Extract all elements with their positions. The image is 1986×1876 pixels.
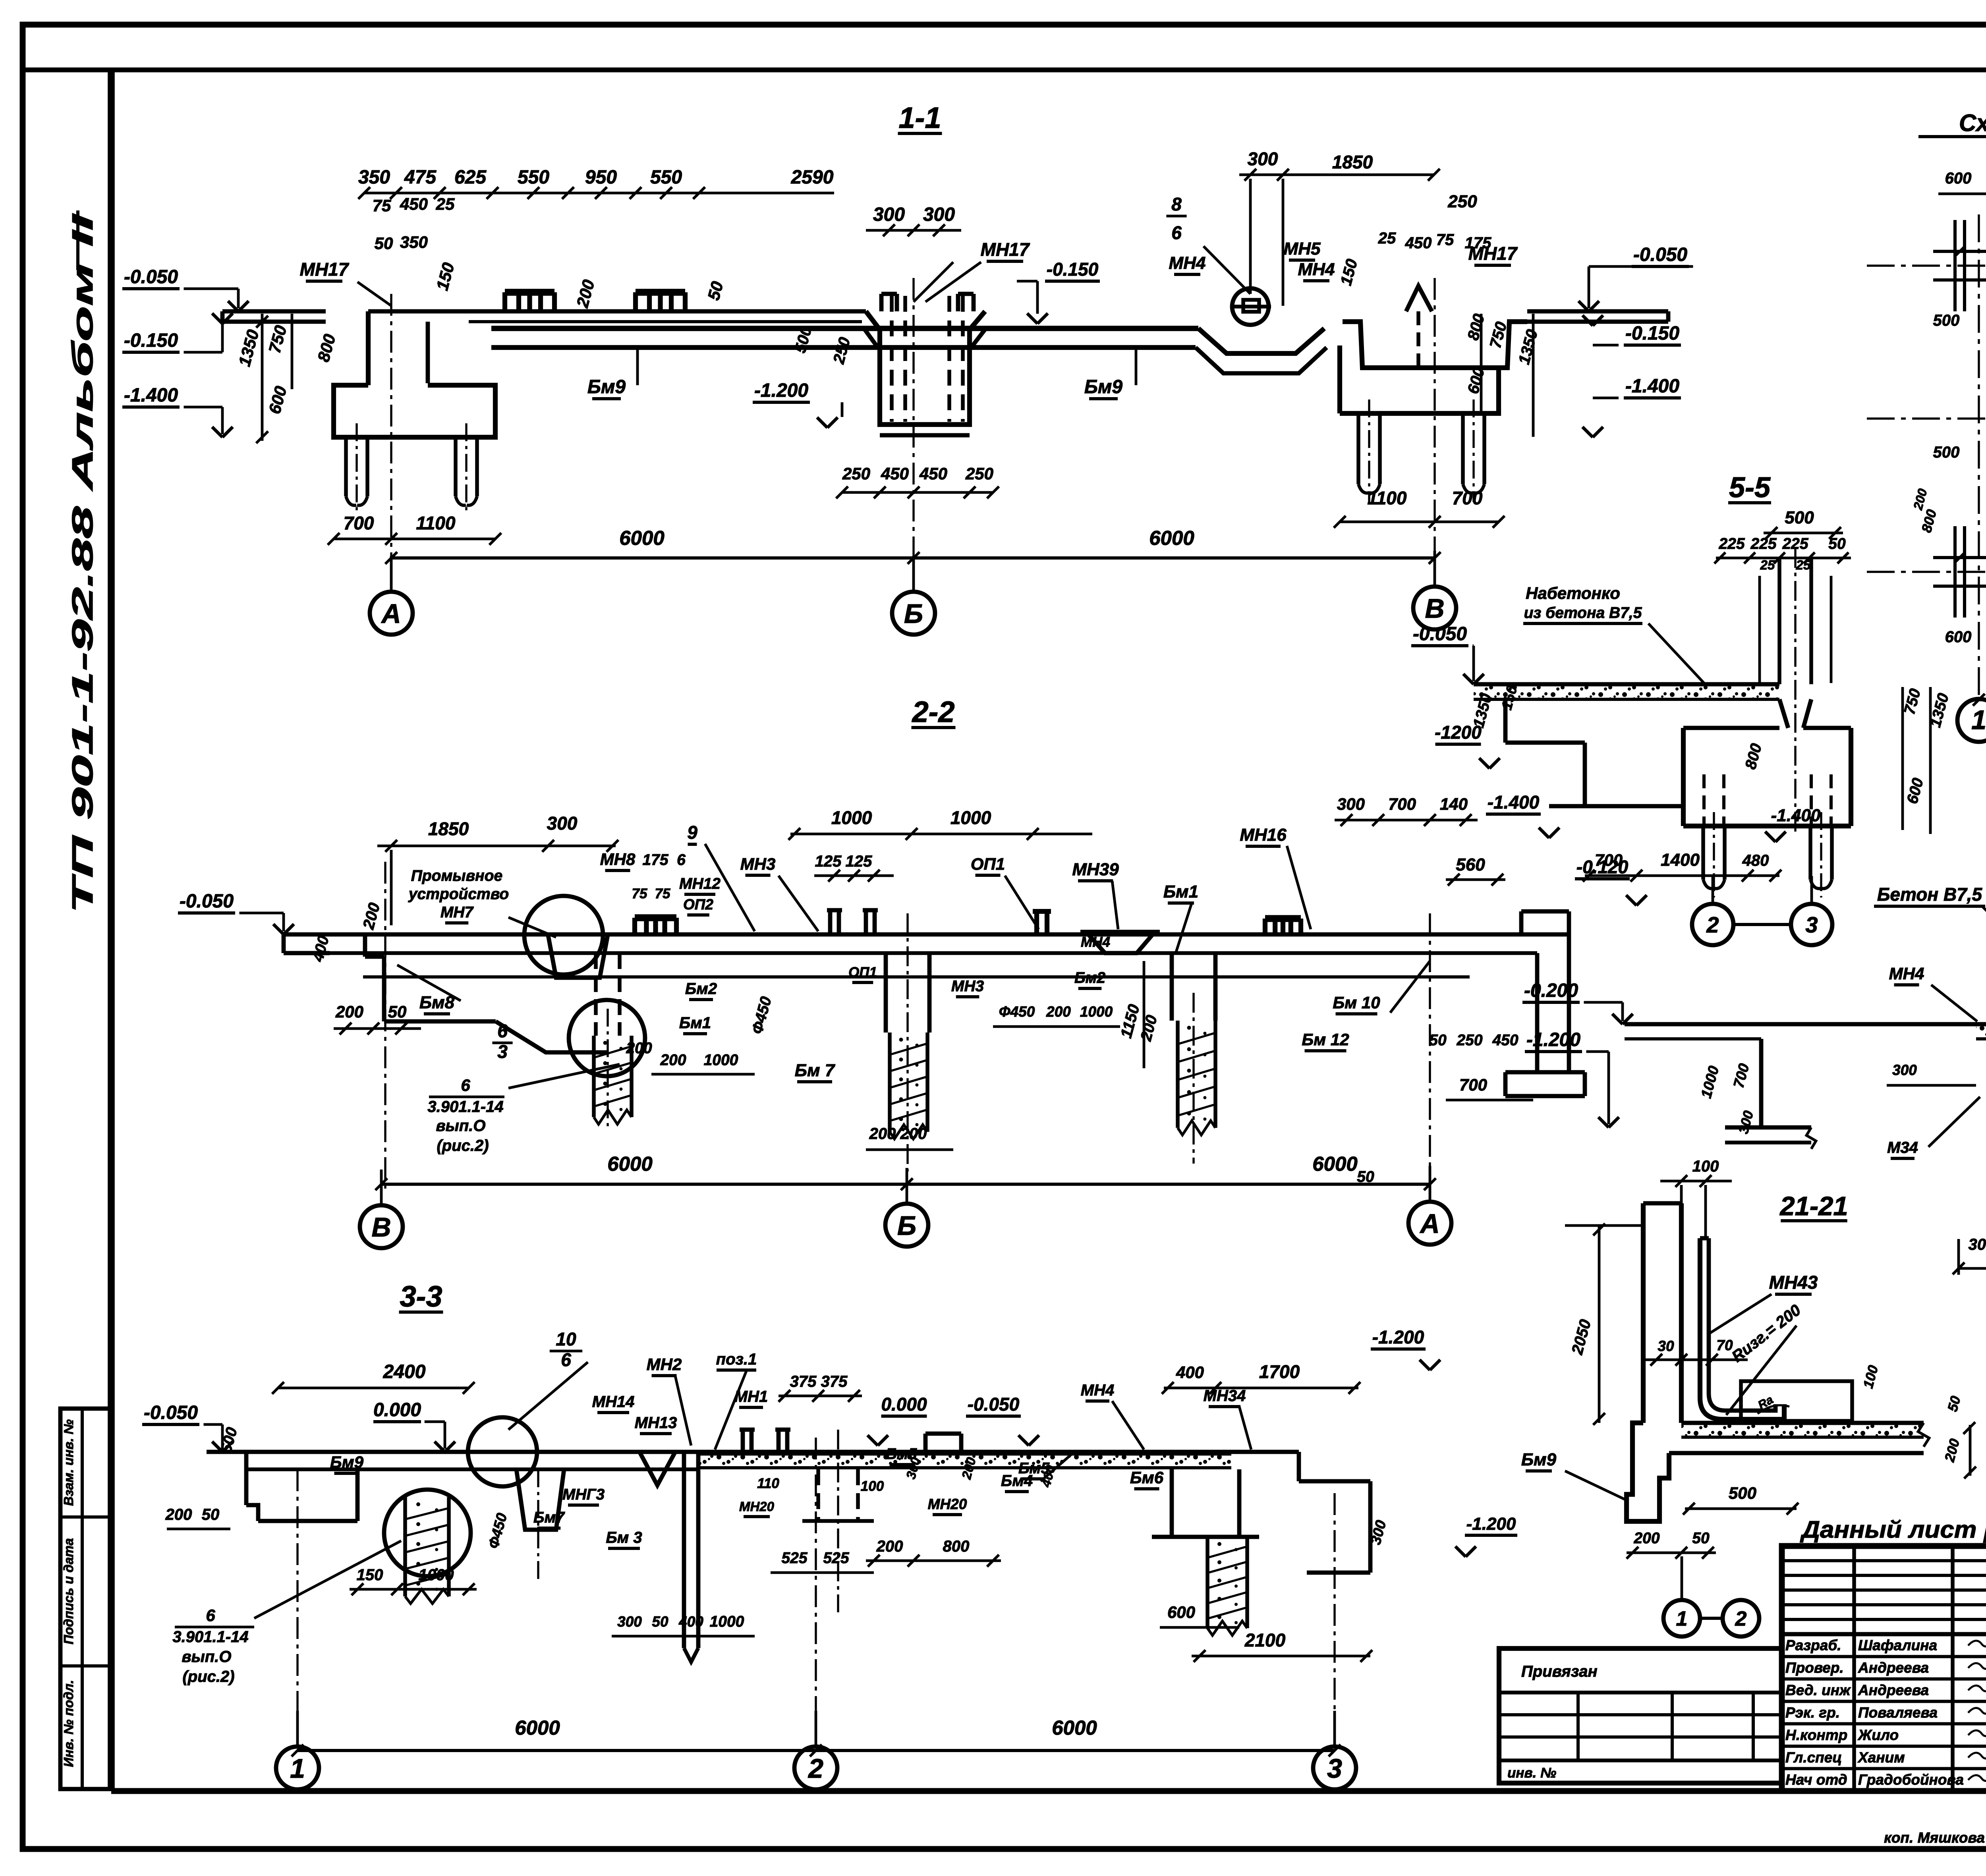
svg-text:250: 250 bbox=[842, 464, 870, 483]
svg-text:700: 700 bbox=[1595, 851, 1623, 869]
svg-text:480: 480 bbox=[1742, 852, 1769, 869]
svg-text:МН34: МН34 bbox=[1204, 1387, 1246, 1405]
svg-text:30: 30 bbox=[1658, 1338, 1674, 1354]
svg-text:1: 1 bbox=[1971, 705, 1986, 735]
svg-text:Бм7: Бм7 bbox=[533, 1509, 565, 1526]
svg-text:450: 450 bbox=[1492, 1032, 1518, 1049]
svg-text:1000: 1000 bbox=[710, 1613, 744, 1630]
svg-text:1000: 1000 bbox=[831, 807, 872, 828]
svg-text:Б: Б bbox=[897, 1210, 916, 1241]
svg-text:Градобойнова: Градобойнова bbox=[1858, 1772, 1964, 1788]
svg-text:-1.400: -1.400 bbox=[1625, 376, 1679, 397]
svg-text:1400: 1400 bbox=[1661, 850, 1700, 870]
svg-text:600: 600 bbox=[1167, 1603, 1195, 1621]
svg-text:-1.200: -1.200 bbox=[1466, 1514, 1516, 1534]
svg-text:25: 25 bbox=[1796, 558, 1811, 572]
svg-text:-0.200: -0.200 bbox=[1524, 980, 1578, 1001]
svg-text:2: 2 bbox=[1735, 1608, 1747, 1631]
svg-text:ОП2: ОП2 bbox=[683, 896, 713, 913]
svg-text:300: 300 bbox=[1248, 149, 1278, 169]
svg-text:ОП1: ОП1 bbox=[848, 965, 877, 980]
svg-text:Бм 7: Бм 7 bbox=[795, 1061, 836, 1080]
svg-text:Бетон В7,5: Бетон В7,5 bbox=[1877, 884, 1983, 905]
svg-text:50: 50 bbox=[1429, 1032, 1447, 1049]
svg-text:50: 50 bbox=[202, 1506, 220, 1523]
svg-text:МН20: МН20 bbox=[928, 1496, 967, 1512]
svg-text:75: 75 bbox=[1436, 231, 1454, 249]
svg-text:МН4: МН4 bbox=[1169, 253, 1206, 273]
svg-text:-1.200: -1.200 bbox=[1372, 1327, 1424, 1347]
svg-text:1000: 1000 bbox=[704, 1052, 738, 1069]
svg-text:6: 6 bbox=[1171, 222, 1182, 243]
svg-text:0.000: 0.000 bbox=[881, 1394, 927, 1415]
svg-text:3: 3 bbox=[1805, 912, 1818, 937]
svg-text:вып.О: вып.О bbox=[436, 1117, 486, 1135]
svg-text:-1.400: -1.400 bbox=[124, 385, 178, 406]
svg-text:ОП1: ОП1 bbox=[971, 855, 1005, 873]
svg-text:0.000: 0.000 bbox=[373, 1399, 421, 1421]
svg-text:-0.150: -0.150 bbox=[1047, 259, 1099, 280]
svg-text:Данный лист рассматривать совм: Данный лист рассматривать совместно с л.… bbox=[1800, 1516, 1986, 1543]
svg-text:А: А bbox=[1419, 1208, 1439, 1239]
svg-text:Привязан: Привязан bbox=[1521, 1663, 1598, 1680]
svg-text:Ф450: Ф450 bbox=[999, 1004, 1035, 1020]
svg-text:Бм9: Бм9 bbox=[330, 1453, 364, 1471]
svg-text:110: 110 bbox=[757, 1476, 779, 1491]
svg-text:700: 700 bbox=[344, 513, 374, 533]
svg-text:-0.050: -0.050 bbox=[144, 1402, 198, 1423]
svg-text:250: 250 bbox=[1447, 192, 1477, 211]
svg-text:500: 500 bbox=[1933, 312, 1960, 329]
svg-text:300: 300 bbox=[547, 813, 578, 834]
svg-text:450: 450 bbox=[919, 464, 947, 483]
svg-text:10: 10 bbox=[556, 1329, 576, 1349]
svg-text:200: 200 bbox=[876, 1538, 903, 1555]
svg-text:МН20: МН20 bbox=[739, 1499, 775, 1514]
svg-text:1700: 1700 bbox=[1259, 1361, 1300, 1382]
svg-text:1850: 1850 bbox=[1332, 152, 1373, 172]
svg-text:150: 150 bbox=[357, 1566, 383, 1584]
svg-text:300: 300 bbox=[1337, 795, 1365, 813]
svg-text:450: 450 bbox=[1405, 234, 1432, 252]
svg-text:МН39: МН39 bbox=[1072, 860, 1119, 879]
svg-text:400: 400 bbox=[678, 1614, 703, 1630]
svg-text:200: 200 bbox=[165, 1506, 192, 1523]
svg-text:1000: 1000 bbox=[950, 807, 991, 828]
svg-text:600: 600 bbox=[1945, 170, 1972, 187]
svg-text:6000: 6000 bbox=[619, 527, 664, 549]
svg-text:450: 450 bbox=[400, 195, 428, 213]
svg-text:475: 475 bbox=[404, 167, 437, 188]
svg-text:50: 50 bbox=[1357, 1168, 1374, 1185]
svg-text:6000: 6000 bbox=[1312, 1152, 1357, 1175]
svg-text:6: 6 bbox=[677, 851, 686, 869]
svg-text:400: 400 bbox=[1176, 1363, 1204, 1382]
svg-text:Андреева: Андреева bbox=[1858, 1660, 1929, 1676]
svg-text:200: 200 bbox=[335, 1002, 363, 1021]
svg-text:Ханим: Ханим bbox=[1857, 1749, 1905, 1766]
svg-text:6: 6 bbox=[206, 1606, 215, 1625]
svg-text:МН16: МН16 bbox=[1240, 825, 1287, 845]
svg-text:450: 450 bbox=[881, 464, 909, 483]
svg-text:МН2: МН2 bbox=[647, 1355, 682, 1374]
svg-text:МН12: МН12 bbox=[679, 875, 721, 892]
svg-text:устройство: устройство bbox=[408, 886, 509, 903]
svg-text:75: 75 bbox=[655, 886, 670, 901]
svg-text:Бм 10: Бм 10 bbox=[1333, 993, 1380, 1012]
svg-text:-0.050: -0.050 bbox=[968, 1394, 1020, 1415]
svg-text:В: В bbox=[1425, 593, 1444, 623]
svg-text:МН3: МН3 bbox=[740, 855, 776, 873]
svg-text:Б: Б bbox=[904, 598, 923, 629]
svg-text:Инв. № подл.: Инв. № подл. bbox=[61, 1680, 76, 1767]
svg-text:МН4: МН4 bbox=[1081, 934, 1110, 950]
svg-text:МН4: МН4 bbox=[1298, 260, 1335, 279]
svg-text:-1.200: -1.200 bbox=[754, 380, 808, 401]
svg-text:2: 2 bbox=[808, 1753, 823, 1783]
svg-text:6000: 6000 bbox=[607, 1152, 652, 1175]
svg-text:300: 300 bbox=[923, 204, 955, 225]
svg-text:140: 140 bbox=[1440, 795, 1468, 813]
svg-text:МН4: МН4 bbox=[1081, 1382, 1114, 1399]
svg-text:50: 50 bbox=[375, 234, 393, 253]
svg-text:950: 950 bbox=[585, 167, 617, 188]
svg-text:600: 600 bbox=[1945, 628, 1972, 646]
svg-text:700: 700 bbox=[1459, 1075, 1487, 1094]
svg-text:Вед. инж: Вед. инж bbox=[1785, 1682, 1851, 1698]
svg-text:525: 525 bbox=[823, 1550, 849, 1567]
svg-text:50: 50 bbox=[1828, 535, 1846, 552]
svg-text:200: 200 bbox=[1633, 1530, 1660, 1547]
svg-text:Промывное: Промывное bbox=[411, 867, 502, 884]
svg-text:3.901.1-14: 3.901.1-14 bbox=[427, 1098, 503, 1116]
svg-text:1100: 1100 bbox=[416, 513, 456, 533]
svg-text:В: В bbox=[371, 1212, 391, 1242]
svg-text:625: 625 bbox=[454, 167, 487, 188]
svg-text:инв. №: инв. № bbox=[1507, 1765, 1556, 1781]
svg-text:3.901.1-14: 3.901.1-14 bbox=[172, 1628, 248, 1646]
svg-text:125: 125 bbox=[846, 853, 872, 870]
svg-text:1-1: 1-1 bbox=[899, 101, 941, 134]
svg-text:200: 200 bbox=[1046, 1004, 1071, 1020]
svg-text:700: 700 bbox=[1388, 795, 1416, 813]
svg-text:МН13: МН13 bbox=[635, 1414, 677, 1432]
svg-text:21-21: 21-21 bbox=[1779, 1191, 1848, 1221]
svg-text:Взам. инв. №: Взам. инв. № bbox=[61, 1419, 76, 1506]
svg-text:50: 50 bbox=[652, 1614, 668, 1630]
svg-text:250: 250 bbox=[965, 464, 993, 483]
svg-text:500: 500 bbox=[1933, 444, 1960, 461]
svg-text:Разраб.: Разраб. bbox=[1785, 1637, 1841, 1654]
svg-text:375: 375 bbox=[790, 1373, 817, 1390]
svg-text:2100: 2100 bbox=[1244, 1630, 1286, 1650]
svg-text:Бм 12: Бм 12 bbox=[1302, 1030, 1349, 1049]
svg-text:125: 125 bbox=[815, 853, 842, 870]
svg-text:550: 550 bbox=[518, 167, 549, 188]
svg-text:МН7: МН7 bbox=[440, 904, 474, 921]
svg-text:25: 25 bbox=[1760, 558, 1775, 572]
svg-text:200: 200 bbox=[900, 1125, 927, 1143]
svg-text:1000: 1000 bbox=[1080, 1004, 1113, 1020]
svg-text:350: 350 bbox=[358, 167, 390, 188]
svg-text:МН14: МН14 bbox=[592, 1393, 635, 1411]
svg-text:5-5: 5-5 bbox=[1729, 472, 1771, 504]
svg-text:Рэк. гр.: Рэк. гр. bbox=[1785, 1704, 1840, 1721]
svg-text:300: 300 bbox=[1892, 1062, 1917, 1078]
svg-text:-0.050: -0.050 bbox=[1633, 244, 1687, 265]
svg-text:1: 1 bbox=[290, 1753, 305, 1783]
svg-text:Подпись и дата: Подпись и дата bbox=[61, 1538, 76, 1644]
svg-text:1100: 1100 bbox=[1368, 488, 1407, 508]
svg-text:Бм1: Бм1 bbox=[1163, 882, 1198, 901]
svg-text:Бм9: Бм9 bbox=[1084, 376, 1122, 398]
svg-text:-0.050: -0.050 bbox=[180, 891, 234, 912]
svg-text:Андреева: Андреева bbox=[1858, 1682, 1929, 1698]
svg-text:500: 500 bbox=[1785, 508, 1814, 527]
svg-text:2590: 2590 bbox=[791, 167, 834, 188]
svg-text:Нач отд: Нач отд bbox=[1785, 1772, 1847, 1788]
svg-text:Бм2: Бм2 bbox=[1074, 969, 1105, 986]
svg-text:(рис.2): (рис.2) bbox=[437, 1137, 489, 1154]
svg-text:75: 75 bbox=[373, 196, 391, 215]
svg-text:коп. Мяшкова: коп. Мяшкова bbox=[1884, 1830, 1985, 1846]
svg-text:Набетонко: Набетонко bbox=[1526, 584, 1620, 602]
svg-text:225: 225 bbox=[1718, 535, 1745, 552]
svg-text:-1.400: -1.400 bbox=[1488, 792, 1540, 813]
svg-text:525: 525 bbox=[781, 1550, 808, 1567]
svg-text:-0.050: -0.050 bbox=[124, 266, 178, 288]
svg-text:МН1: МН1 bbox=[734, 1388, 768, 1405]
svg-text:МН17: МН17 bbox=[300, 259, 350, 280]
svg-text:Шафалина: Шафалина bbox=[1858, 1637, 1937, 1654]
svg-text:(рис.2): (рис.2) bbox=[182, 1668, 234, 1685]
svg-text:25: 25 bbox=[436, 195, 455, 213]
svg-text:Жило: Жило bbox=[1857, 1727, 1899, 1743]
svg-text:700: 700 bbox=[1452, 488, 1483, 508]
svg-text:МН3: МН3 bbox=[951, 978, 984, 995]
svg-text:М34: М34 bbox=[1887, 1139, 1918, 1156]
svg-text:500: 500 bbox=[1729, 1484, 1756, 1502]
svg-text:300: 300 bbox=[617, 1614, 642, 1630]
svg-text:300: 300 bbox=[873, 204, 905, 225]
svg-text:6000: 6000 bbox=[515, 1716, 560, 1739]
svg-text:375: 375 bbox=[821, 1373, 848, 1390]
svg-text:-1.400: -1.400 bbox=[1771, 806, 1821, 825]
svg-text:2-2: 2-2 bbox=[912, 695, 955, 728]
svg-text:800: 800 bbox=[943, 1538, 970, 1555]
svg-text:50: 50 bbox=[1692, 1530, 1710, 1547]
svg-text:560: 560 bbox=[1456, 855, 1485, 874]
svg-text:МН17: МН17 bbox=[981, 239, 1030, 260]
svg-text:550: 550 bbox=[650, 167, 682, 188]
svg-text:350: 350 bbox=[400, 233, 428, 251]
svg-text:50: 50 bbox=[388, 1002, 407, 1021]
svg-text:Бм6: Бм6 bbox=[1130, 1468, 1164, 1487]
svg-text:3-3: 3-3 bbox=[400, 1280, 442, 1313]
svg-text:200: 200 bbox=[626, 1040, 652, 1057]
svg-text:Гл.спец: Гл.спец bbox=[1785, 1749, 1842, 1766]
svg-text:175: 175 bbox=[642, 851, 668, 869]
svg-text:100: 100 bbox=[861, 1478, 884, 1494]
svg-text:из бетона В7,5: из бетона В7,5 bbox=[1524, 604, 1642, 621]
svg-text:25: 25 bbox=[1378, 230, 1396, 247]
svg-text:-0.150: -0.150 bbox=[1625, 323, 1679, 344]
svg-text:МН4: МН4 bbox=[1889, 964, 1924, 983]
svg-text:6: 6 bbox=[497, 1021, 508, 1041]
svg-text:250: 250 bbox=[1456, 1032, 1482, 1049]
svg-text:МНГ3: МНГ3 bbox=[562, 1486, 605, 1503]
svg-text:1: 1 bbox=[1676, 1608, 1688, 1631]
svg-text:вып.О: вып.О bbox=[182, 1648, 232, 1666]
svg-text:МН8: МН8 bbox=[600, 850, 636, 869]
svg-text:225: 225 bbox=[1750, 535, 1777, 552]
svg-text:-0.050: -0.050 bbox=[1413, 623, 1467, 645]
svg-text:1000: 1000 bbox=[419, 1566, 454, 1584]
svg-text:3: 3 bbox=[1327, 1753, 1342, 1783]
svg-text:8: 8 bbox=[1171, 194, 1182, 214]
svg-text:300: 300 bbox=[1969, 1236, 1986, 1253]
svg-text:6: 6 bbox=[561, 1349, 571, 1370]
svg-text:6000: 6000 bbox=[1149, 527, 1194, 549]
svg-text:МН5: МН5 bbox=[1284, 239, 1321, 259]
svg-text:6000: 6000 bbox=[1052, 1716, 1097, 1739]
svg-text:Бм1: Бм1 bbox=[679, 1014, 711, 1032]
svg-text:Бм4: Бм4 bbox=[1001, 1472, 1033, 1490]
svg-text:МН43: МН43 bbox=[1769, 1272, 1818, 1293]
svg-text:75: 75 bbox=[632, 886, 647, 901]
svg-text:-1.200: -1.200 bbox=[1526, 1029, 1580, 1050]
svg-text:Бм9: Бм9 bbox=[1521, 1450, 1557, 1469]
svg-text:А: А bbox=[381, 598, 401, 629]
svg-text:1850: 1850 bbox=[428, 818, 469, 839]
svg-text:Схема расположения свайного по: Схема расположения свайного поля bbox=[1959, 110, 1986, 136]
svg-text:Бм 3: Бм 3 bbox=[606, 1529, 642, 1546]
svg-text:ТП 901-1-92.88 Альбом II: ТП 901-1-92.88 Альбом II bbox=[66, 213, 99, 913]
svg-text:2: 2 bbox=[1706, 912, 1719, 937]
svg-text:200: 200 bbox=[660, 1052, 686, 1069]
svg-text:Бм9: Бм9 bbox=[587, 376, 626, 398]
svg-text:6: 6 bbox=[461, 1076, 470, 1094]
svg-text:3: 3 bbox=[497, 1041, 508, 1062]
svg-text:Бм2: Бм2 bbox=[685, 980, 717, 998]
svg-text:2400: 2400 bbox=[383, 1361, 426, 1382]
svg-text:Поваляева: Поваляева bbox=[1858, 1704, 1938, 1721]
svg-text:Провер.: Провер. bbox=[1785, 1660, 1844, 1676]
svg-text:100: 100 bbox=[1692, 1158, 1719, 1175]
svg-text:9: 9 bbox=[687, 822, 697, 843]
svg-text:поз.1: поз.1 bbox=[716, 1351, 757, 1368]
svg-text:175: 175 bbox=[1465, 234, 1491, 252]
svg-text:Н.контр: Н.контр bbox=[1785, 1727, 1847, 1743]
svg-text:200: 200 bbox=[869, 1125, 896, 1143]
svg-text:-1200: -1200 bbox=[1435, 722, 1482, 743]
svg-text:-0.150: -0.150 bbox=[124, 330, 178, 351]
